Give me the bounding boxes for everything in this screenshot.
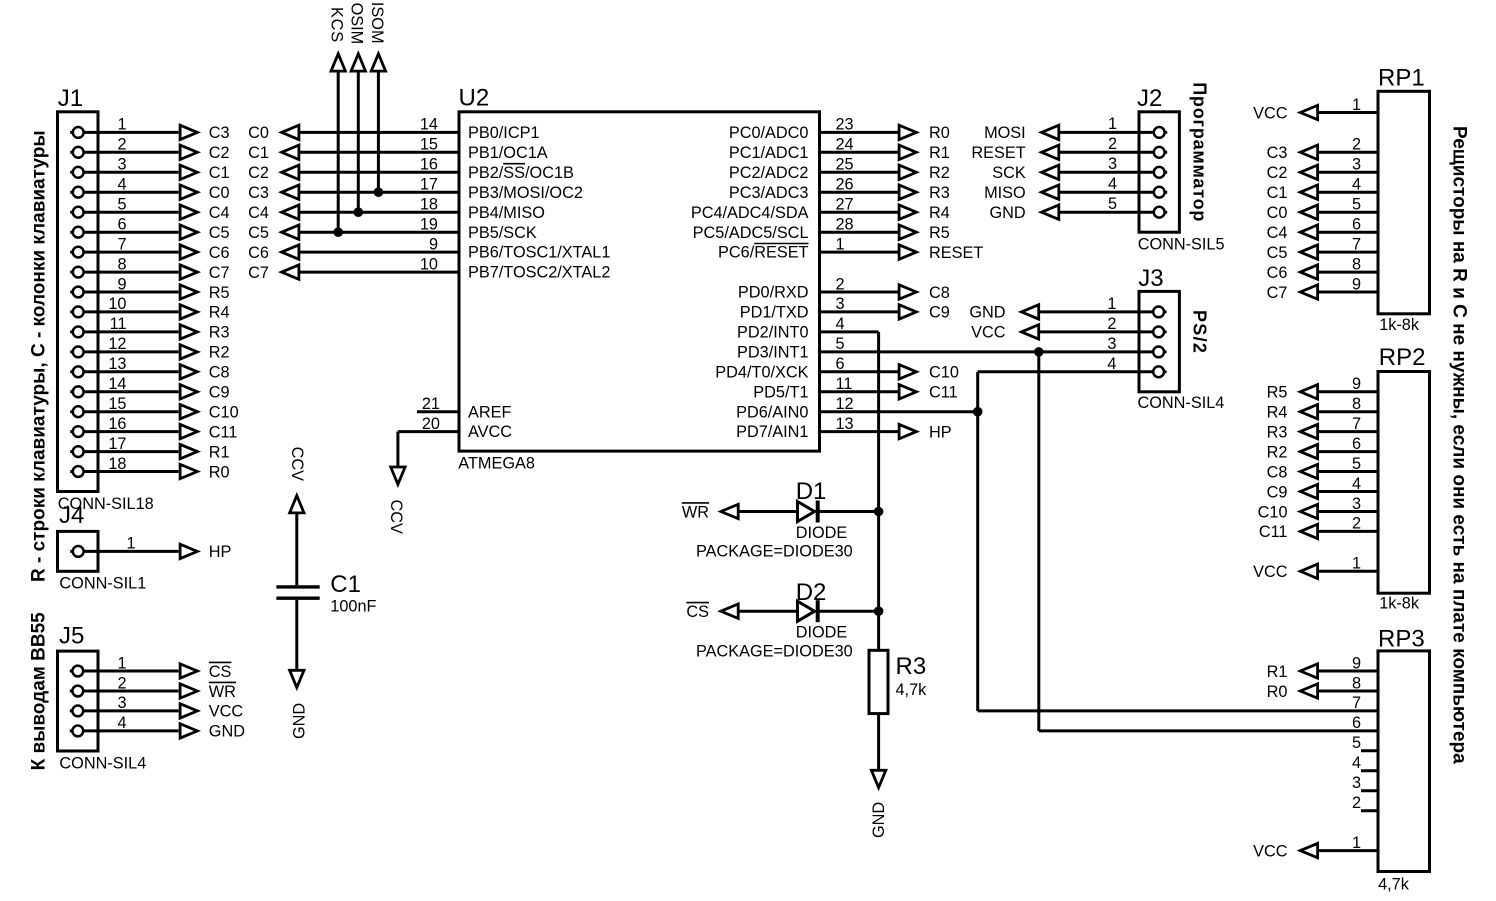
- svg-text:100nF: 100nF: [330, 597, 376, 615]
- svg-text:R4: R4: [209, 304, 230, 322]
- svg-text:5: 5: [1352, 196, 1361, 214]
- svg-text:16: 16: [420, 156, 438, 174]
- svg-text:R0: R0: [1267, 683, 1288, 701]
- svg-text:RP2: RP2: [1379, 344, 1426, 371]
- svg-text:1: 1: [836, 235, 845, 253]
- svg-text:1k-8k: 1k-8k: [1379, 316, 1420, 334]
- svg-text:DIODE: DIODE: [796, 524, 848, 542]
- svg-text:1: 1: [1108, 115, 1117, 133]
- svg-text:8: 8: [117, 255, 126, 273]
- svg-text:D2: D2: [796, 579, 827, 606]
- svg-text:8: 8: [1352, 395, 1361, 413]
- svg-text:R3: R3: [896, 653, 927, 680]
- svg-text:3: 3: [1108, 155, 1117, 173]
- svg-text:CONN-SIL1: CONN-SIL1: [59, 575, 146, 593]
- svg-text:SCK: SCK: [992, 164, 1026, 182]
- svg-text:PC2/ADC2: PC2/ADC2: [729, 164, 809, 182]
- svg-text:23: 23: [836, 116, 854, 134]
- svg-text:C0: C0: [209, 184, 230, 202]
- svg-text:16: 16: [108, 415, 126, 433]
- svg-text:OSIM: OSIM: [348, 3, 366, 45]
- svg-text:PB7/TOSC2/XTAL2: PB7/TOSC2/XTAL2: [468, 264, 610, 282]
- svg-text:C11: C11: [1259, 523, 1288, 541]
- svg-text:C2: C2: [1267, 164, 1288, 182]
- svg-text:WR: WR: [682, 503, 709, 521]
- svg-text:PB5/SCK: PB5/SCK: [468, 224, 537, 242]
- svg-text:C7: C7: [248, 264, 269, 282]
- svg-text:CONN-SIL4: CONN-SIL4: [59, 754, 146, 772]
- svg-text:PB6/TOSC1/XTAL1: PB6/TOSC1/XTAL1: [468, 244, 610, 262]
- svg-text:7: 7: [1352, 694, 1361, 712]
- svg-text:6: 6: [117, 216, 126, 234]
- svg-text:D1: D1: [796, 478, 827, 505]
- svg-text:2: 2: [1107, 315, 1116, 333]
- svg-text:5: 5: [836, 335, 845, 353]
- svg-text:20: 20: [422, 415, 440, 433]
- svg-text:PACKAGE=DIODE30: PACKAGE=DIODE30: [696, 642, 853, 660]
- svg-text:PC1/ADC1: PC1/ADC1: [729, 144, 809, 162]
- svg-text:R4: R4: [929, 204, 950, 222]
- svg-text:8: 8: [1352, 255, 1361, 273]
- svg-text:C10: C10: [929, 364, 959, 382]
- svg-text:3: 3: [1107, 335, 1116, 353]
- svg-text:Программатор: Программатор: [1189, 82, 1209, 222]
- svg-text:Рещисторы на R и C не нужны, е: Рещисторы на R и C не нужны, если они ес…: [1448, 126, 1469, 764]
- svg-text:9: 9: [429, 235, 438, 253]
- svg-text:R1: R1: [929, 144, 950, 162]
- svg-text:C1: C1: [1267, 184, 1288, 202]
- svg-text:3: 3: [836, 295, 845, 313]
- svg-text:5: 5: [1352, 734, 1361, 752]
- svg-text:1: 1: [1107, 295, 1116, 313]
- svg-text:2: 2: [1108, 135, 1117, 153]
- svg-text:2: 2: [836, 275, 845, 293]
- svg-text:C6: C6: [209, 244, 230, 262]
- svg-text:PACKAGE=DIODE30: PACKAGE=DIODE30: [696, 543, 853, 561]
- svg-text:19: 19: [420, 216, 438, 234]
- svg-text:GND: GND: [209, 723, 245, 741]
- svg-text:PD5/T1: PD5/T1: [753, 383, 808, 401]
- svg-text:C10: C10: [209, 404, 239, 422]
- svg-text:CONN-SIL4: CONN-SIL4: [1138, 394, 1225, 412]
- svg-text:C7: C7: [209, 264, 230, 282]
- svg-text:C3: C3: [209, 124, 230, 142]
- svg-text:18: 18: [420, 196, 438, 214]
- svg-text:AVCC: AVCC: [468, 423, 512, 441]
- svg-text:MOSI: MOSI: [984, 124, 1026, 142]
- svg-text:6: 6: [836, 355, 845, 373]
- svg-text:6: 6: [1352, 435, 1361, 453]
- svg-text:3: 3: [1352, 495, 1361, 513]
- svg-text:12: 12: [108, 335, 126, 353]
- svg-text:PB1/OC1A: PB1/OC1A: [468, 144, 548, 162]
- svg-text:R5: R5: [209, 284, 230, 302]
- svg-text:J5: J5: [59, 622, 84, 649]
- svg-text:KCS: KCS: [327, 7, 345, 43]
- svg-text:24: 24: [836, 136, 854, 154]
- svg-text:14: 14: [420, 116, 438, 134]
- svg-text:C1: C1: [209, 164, 230, 182]
- svg-text:C0: C0: [1267, 204, 1288, 222]
- svg-text:R3: R3: [209, 324, 230, 342]
- svg-text:4: 4: [1352, 754, 1361, 772]
- svg-text:R2: R2: [209, 344, 230, 362]
- svg-text:RESET: RESET: [971, 144, 1025, 162]
- svg-text:C8: C8: [929, 284, 950, 302]
- svg-text:C9: C9: [209, 384, 230, 402]
- svg-text:21: 21: [422, 395, 440, 413]
- svg-text:C7: C7: [1267, 284, 1288, 302]
- svg-text:PB3/MOSI/OC2: PB3/MOSI/OC2: [468, 184, 583, 202]
- svg-text:CONN-SIL5: CONN-SIL5: [1138, 236, 1225, 254]
- svg-text:PB2/SS/OC1B: PB2/SS/OC1B: [468, 164, 574, 182]
- svg-text:11: 11: [836, 375, 853, 393]
- svg-text:GND: GND: [990, 204, 1026, 222]
- svg-text:PC4/ADC4/SDA: PC4/ADC4/SDA: [691, 204, 809, 222]
- svg-text:4: 4: [1352, 475, 1361, 493]
- svg-text:GND: GND: [870, 802, 888, 838]
- svg-text:PD2/INT0: PD2/INT0: [737, 324, 808, 342]
- svg-text:17: 17: [420, 176, 438, 194]
- svg-text:R3: R3: [929, 184, 950, 202]
- svg-text:J1: J1: [58, 85, 83, 112]
- svg-text:3: 3: [117, 694, 126, 712]
- svg-text:7: 7: [1352, 415, 1361, 433]
- svg-text:RESET: RESET: [929, 244, 983, 262]
- svg-text:C1: C1: [330, 571, 361, 598]
- svg-text:VCC: VCC: [209, 703, 244, 721]
- svg-text:J3: J3: [1138, 265, 1163, 292]
- svg-text:11: 11: [110, 315, 127, 333]
- svg-text:9: 9: [1352, 275, 1361, 293]
- svg-text:5: 5: [117, 196, 126, 214]
- svg-text:4: 4: [117, 176, 126, 194]
- svg-text:7: 7: [1352, 235, 1361, 253]
- svg-text:RP3: RP3: [1378, 626, 1425, 653]
- svg-text:27: 27: [836, 196, 854, 214]
- svg-text:C10: C10: [1258, 503, 1288, 521]
- svg-text:PS/2: PS/2: [1189, 310, 1209, 354]
- svg-text:4: 4: [117, 714, 126, 732]
- svg-text:5: 5: [1352, 455, 1361, 473]
- svg-text:4: 4: [1352, 176, 1361, 194]
- svg-text:PD7/AIN1: PD7/AIN1: [736, 423, 808, 441]
- svg-text:15: 15: [420, 136, 438, 154]
- svg-text:25: 25: [836, 156, 854, 174]
- svg-text:ISOM: ISOM: [368, 2, 386, 44]
- svg-text:1: 1: [117, 116, 126, 134]
- svg-text:VCC: VCC: [1253, 563, 1288, 581]
- svg-text:C8: C8: [1267, 463, 1288, 481]
- svg-text:1: 1: [1352, 96, 1361, 114]
- svg-text:4,7k: 4,7k: [1378, 875, 1410, 893]
- svg-text:12: 12: [836, 395, 854, 413]
- svg-text:PC5/ADC5/SCL: PC5/ADC5/SCL: [693, 224, 809, 242]
- svg-text:R - строки клавиатуры, C - кол: R - строки клавиатуры, C - колонки клави…: [29, 130, 50, 582]
- svg-text:GND: GND: [969, 304, 1005, 322]
- svg-text:WR: WR: [209, 683, 236, 701]
- svg-text:AREF: AREF: [468, 403, 511, 421]
- svg-text:1: 1: [117, 654, 126, 672]
- svg-text:R2: R2: [929, 164, 950, 182]
- svg-text:J2: J2: [1137, 85, 1162, 112]
- svg-text:6: 6: [1352, 714, 1361, 732]
- svg-text:PD6/AIN0: PD6/AIN0: [736, 403, 808, 421]
- svg-text:ATMEGA8: ATMEGA8: [458, 455, 535, 473]
- svg-text:VCC: VCC: [971, 324, 1006, 342]
- svg-text:8: 8: [1352, 674, 1361, 692]
- svg-text:4: 4: [836, 315, 845, 333]
- svg-text:C1: C1: [248, 144, 269, 162]
- svg-text:CONN-SIL18: CONN-SIL18: [58, 495, 154, 513]
- svg-text:2: 2: [1352, 136, 1361, 154]
- svg-text:1: 1: [127, 535, 136, 553]
- svg-text:10: 10: [108, 295, 126, 313]
- svg-text:PD4/T0/XCK: PD4/T0/XCK: [715, 363, 808, 381]
- svg-text:U2: U2: [459, 85, 490, 112]
- svg-text:PB4/MISO: PB4/MISO: [468, 204, 545, 222]
- svg-text:26: 26: [836, 176, 854, 194]
- svg-text:C2: C2: [209, 144, 230, 162]
- svg-text:VCC: VCC: [1253, 104, 1288, 122]
- svg-text:9: 9: [1352, 375, 1361, 393]
- svg-text:PD3/INT1: PD3/INT1: [737, 344, 808, 362]
- svg-text:HP: HP: [209, 543, 232, 561]
- svg-text:HP: HP: [929, 423, 952, 441]
- svg-text:C5: C5: [209, 224, 230, 242]
- svg-text:4: 4: [1108, 175, 1117, 193]
- svg-text:GND: GND: [290, 703, 308, 739]
- svg-text:5: 5: [1108, 195, 1117, 213]
- svg-text:CCV: CCV: [288, 447, 306, 482]
- svg-text:PB0/ICP1: PB0/ICP1: [468, 124, 540, 142]
- svg-text:18: 18: [108, 455, 126, 473]
- svg-text:PD0/RXD: PD0/RXD: [738, 284, 809, 302]
- svg-text:9: 9: [1352, 654, 1361, 672]
- svg-text:R1: R1: [1267, 663, 1288, 681]
- svg-text:1: 1: [1352, 834, 1361, 852]
- svg-text:К выводам ВВ55: К выводам ВВ55: [29, 612, 50, 771]
- svg-text:R1: R1: [209, 443, 230, 461]
- svg-text:R0: R0: [929, 124, 950, 142]
- svg-text:PC0/ADC0: PC0/ADC0: [729, 124, 809, 142]
- svg-text:3: 3: [1352, 774, 1361, 792]
- svg-text:C6: C6: [248, 244, 269, 262]
- svg-text:2: 2: [117, 674, 126, 692]
- svg-text:CS: CS: [686, 603, 709, 621]
- svg-text:3: 3: [1352, 156, 1361, 174]
- svg-text:R3: R3: [1267, 423, 1288, 441]
- svg-text:6: 6: [1352, 216, 1361, 234]
- svg-text:4,7k: 4,7k: [896, 681, 928, 699]
- svg-text:C9: C9: [1267, 483, 1288, 501]
- svg-text:2: 2: [1352, 794, 1361, 812]
- svg-text:7: 7: [117, 235, 126, 253]
- svg-text:R4: R4: [1267, 404, 1288, 422]
- svg-text:2: 2: [1352, 515, 1361, 533]
- svg-text:RP1: RP1: [1378, 65, 1425, 92]
- svg-text:PC6/RESET: PC6/RESET: [718, 244, 809, 262]
- svg-text:MISO: MISO: [984, 184, 1026, 202]
- svg-text:C9: C9: [929, 304, 950, 322]
- svg-text:17: 17: [108, 435, 126, 453]
- svg-text:C11: C11: [929, 384, 958, 402]
- svg-text:15: 15: [108, 395, 126, 413]
- svg-text:C4: C4: [248, 204, 269, 222]
- svg-text:PC3/ADC3: PC3/ADC3: [729, 184, 809, 202]
- svg-text:C8: C8: [209, 364, 230, 382]
- svg-text:CCV: CCV: [387, 500, 405, 535]
- svg-text:28: 28: [836, 216, 854, 234]
- svg-text:13: 13: [836, 415, 854, 433]
- svg-text:1k-8k: 1k-8k: [1379, 595, 1420, 613]
- svg-text:VCC: VCC: [1253, 842, 1288, 860]
- svg-text:R2: R2: [1267, 443, 1288, 461]
- svg-text:10: 10: [420, 255, 438, 273]
- svg-text:3: 3: [117, 156, 126, 174]
- svg-text:R0: R0: [209, 463, 230, 481]
- svg-text:C2: C2: [248, 164, 269, 182]
- svg-text:4: 4: [1107, 355, 1116, 373]
- svg-text:DIODE: DIODE: [796, 624, 848, 642]
- svg-text:C4: C4: [209, 204, 230, 222]
- svg-text:PD1/TXD: PD1/TXD: [740, 304, 809, 322]
- svg-text:CS: CS: [209, 663, 232, 681]
- svg-text:C5: C5: [248, 224, 269, 242]
- svg-text:R5: R5: [929, 224, 950, 242]
- svg-text:C3: C3: [248, 184, 269, 202]
- svg-text:1: 1: [1352, 555, 1361, 573]
- svg-text:C11: C11: [209, 423, 238, 441]
- svg-text:C3: C3: [1267, 144, 1288, 162]
- svg-text:14: 14: [108, 375, 126, 393]
- svg-text:R5: R5: [1267, 384, 1288, 402]
- svg-text:C4: C4: [1267, 224, 1288, 242]
- svg-text:C6: C6: [1267, 264, 1288, 282]
- svg-text:C5: C5: [1267, 244, 1288, 262]
- svg-text:2: 2: [117, 136, 126, 154]
- svg-text:13: 13: [108, 355, 126, 373]
- svg-text:9: 9: [117, 275, 126, 293]
- svg-text:C0: C0: [248, 124, 269, 142]
